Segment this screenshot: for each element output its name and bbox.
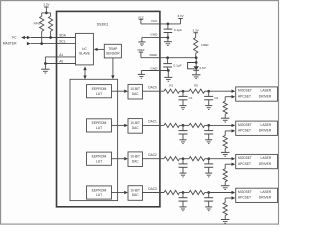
10-BIT DAC block 3 <box>128 186 143 201</box>
10-BIT DAC block 1 <box>128 119 143 134</box>
svg-text:MODSET: MODSET <box>238 123 252 127</box>
EEPROM array box <box>70 79 118 200</box>
wire LUT3 to DAC3 <box>112 192 125 194</box>
wire A0 <box>45 63 76 65</box>
capacitor C2 row 3 <box>208 193 210 198</box>
wire VCC pin <box>141 23 181 25</box>
node GND/cap 1 <box>167 36 170 39</box>
svg-text:2.5V: 2.5V <box>199 66 206 70</box>
resistor APCSET row 2 <box>223 169 227 182</box>
resistor R2 row 3 <box>189 190 205 194</box>
ground APCSET row 0 <box>224 114 226 118</box>
laser driver block 2 <box>236 154 278 168</box>
svg-text:LASER: LASER <box>261 190 272 194</box>
svg-text:A0: A0 <box>59 60 63 64</box>
ground APCSET row 1 <box>224 148 226 152</box>
node R2/C2 row 3 <box>207 191 210 194</box>
wire APCSET row 0 <box>225 96 231 98</box>
wire 100 Ohm to VREF node <box>195 53 197 57</box>
node R1/C1 row 0 <box>182 90 185 93</box>
svg-text:LUT: LUT <box>96 193 102 197</box>
wire temp sensor to I2C slave <box>97 48 104 50</box>
svg-text:3.3V: 3.3V <box>43 3 50 7</box>
svg-text:APCSET: APCSET <box>238 94 251 98</box>
svg-text:LASER: LASER <box>261 123 272 127</box>
svg-text:DAC: DAC <box>132 92 139 96</box>
EEPROM LUT block 0 <box>87 85 112 98</box>
capacitor C2 row 0 <box>208 91 210 96</box>
svg-text:10-BIT: 10-BIT <box>130 121 140 125</box>
capacitor 0.1uF VREF <box>167 58 169 64</box>
wire APCSET row 1 <box>225 130 231 132</box>
wire DAC1 output <box>143 124 165 126</box>
capacitor C1 row 2 <box>182 159 184 164</box>
wire pull-up branch <box>42 12 51 14</box>
svg-text:DAC: DAC <box>132 126 139 130</box>
resistor 100 Ohm <box>194 38 198 54</box>
wire DAC2 output <box>143 158 165 160</box>
svg-text:LASER: LASER <box>261 89 272 93</box>
3.3V supply for pull-ups <box>44 6 48 8</box>
EEPROM LUT block 3 <box>87 186 112 199</box>
wire SDA pull-up <box>50 31 52 37</box>
svg-text:DRIVER: DRIVER <box>259 162 272 166</box>
wire zener cathode <box>195 58 197 63</box>
svg-text:DAC: DAC <box>132 159 139 163</box>
svg-text:TEMP: TEMP <box>108 47 118 51</box>
svg-text:R2: R2 <box>194 84 198 88</box>
ground zener <box>192 74 201 76</box>
capacitor C2 row 2 <box>208 159 210 164</box>
ground C1 row 2 <box>182 167 184 173</box>
wire LUT2 to DAC2 <box>112 158 125 160</box>
svg-text:LASER: LASER <box>261 156 272 160</box>
svg-text:MASTER: MASTER <box>3 41 17 45</box>
svg-text:100Ω: 100Ω <box>201 43 209 47</box>
node R2/C2 row 2 <box>207 157 210 160</box>
svg-text:EEPROM: EEPROM <box>92 121 107 125</box>
node R1/C1 row 3 <box>182 191 185 194</box>
ground C2 row 0 <box>208 100 210 106</box>
resistor R2 row 1 <box>189 123 205 127</box>
ground C2 row 3 <box>208 201 210 207</box>
capacitor C1 row 1 <box>182 125 184 130</box>
svg-text:SLAVE: SLAVE <box>79 51 91 55</box>
svg-text:APCSET: APCSET <box>238 129 251 133</box>
resistor R1 row 2 <box>164 157 180 161</box>
ground C1 row 1 <box>182 134 184 140</box>
svg-text:DRIVER: DRIVER <box>259 196 272 200</box>
svg-text:DS3911: DS3911 <box>97 22 109 26</box>
node SCL pull-up <box>40 42 43 45</box>
ground C2 row 1 <box>208 134 210 140</box>
svg-text:0.1µF: 0.1µF <box>174 28 182 32</box>
ground VCC cap <box>167 38 169 42</box>
svg-text:A1: A1 <box>59 53 63 57</box>
svg-text:VCC: VCC <box>138 15 144 19</box>
node zener ref <box>195 61 198 64</box>
wire GND pin 1 <box>142 37 168 39</box>
svg-text:APCSET: APCSET <box>238 196 251 200</box>
node pull-up top <box>45 12 48 15</box>
svg-text:R1: R1 <box>169 84 173 88</box>
svg-text:GND: GND <box>150 66 158 70</box>
node R1/C1 row 2 <box>182 157 185 160</box>
zener diode 2.5V <box>195 63 197 67</box>
svg-text:DAC: DAC <box>132 193 139 197</box>
capacitor C1 row 3 <box>182 193 184 198</box>
EEPROM LUT block 2 <box>87 152 112 165</box>
node VCC/cap <box>167 23 170 26</box>
wire MODSET row 1 <box>209 124 232 126</box>
svg-text:I²C: I²C <box>12 35 17 39</box>
svg-text:APCSET: APCSET <box>238 162 251 166</box>
resistor R2 row 0 <box>189 89 205 93</box>
svg-text:SENSOR: SENSOR <box>106 51 120 55</box>
wire SDA <box>31 37 76 39</box>
wire A1 <box>45 56 76 58</box>
ground APCSET row 2 <box>224 182 226 186</box>
wire MODSET row 2 <box>209 158 232 160</box>
ground VREF cap <box>167 71 169 78</box>
EEPROM LUT block 1 <box>87 119 112 132</box>
svg-text:C1: C1 <box>189 96 193 100</box>
op-amp I2C SLAVE block <box>76 33 94 65</box>
svg-text:DRIVER: DRIVER <box>259 94 272 98</box>
svg-text:DAC0: DAC0 <box>148 86 157 90</box>
resistor APCSET row 1 <box>223 135 227 148</box>
ground GND pin internal 1 <box>141 38 143 42</box>
svg-text:SCL: SCL <box>59 40 65 44</box>
wire MODSET row 0 <box>209 90 232 92</box>
svg-text:MODSET: MODSET <box>238 190 252 194</box>
svg-text:DAC1: DAC1 <box>148 120 157 124</box>
wire APCSET row 3 <box>225 197 231 199</box>
wire VREF pin <box>141 57 196 59</box>
svg-text:LUT: LUT <box>96 126 102 130</box>
svg-text:GND: GND <box>150 33 158 37</box>
resistor R1 row 3 <box>164 190 180 194</box>
laser driver block 0 <box>236 87 278 101</box>
3.3V supply for VREF resistor <box>194 32 198 34</box>
resistor R2 row 2 <box>189 157 205 161</box>
laser driver block 3 <box>236 188 278 202</box>
wire LUT0 to DAC0 <box>112 90 125 92</box>
temp sensor block <box>104 44 121 58</box>
svg-text:VCC: VCC <box>151 19 158 23</box>
svg-text:DAC2: DAC2 <box>148 153 157 157</box>
op chip DS3911 outline <box>57 11 160 206</box>
node R1/C1 row 1 <box>182 124 185 127</box>
svg-text:SDA: SDA <box>59 34 66 38</box>
resistor R1 row 0 <box>164 89 180 93</box>
svg-text:10-BIT: 10-BIT <box>130 155 140 159</box>
svg-text:10-BIT: 10-BIT <box>130 188 140 192</box>
resistor RPU (SDA pull-up) <box>49 16 53 31</box>
resistor RPU (SCL pull-up) <box>40 16 44 31</box>
svg-text:0.1µF: 0.1µF <box>174 63 182 67</box>
node R2/C2 row 1 <box>207 124 210 127</box>
wire APCSET row 2 <box>225 163 231 165</box>
svg-text:10-BIT: 10-BIT <box>130 87 140 91</box>
svg-text:EEPROM: EEPROM <box>92 155 107 159</box>
svg-text:LUT: LUT <box>96 92 102 96</box>
ground GND pin internal 2 <box>140 71 142 75</box>
svg-text:3.3V: 3.3V <box>193 28 200 32</box>
wire MODSET row 3 <box>209 192 232 194</box>
ground APCSET row 3 <box>224 216 226 220</box>
wire zener ref loop <box>188 63 197 69</box>
wire SCL <box>31 43 76 45</box>
svg-text:LUT: LUT <box>96 159 102 163</box>
wire SCL pull-up <box>41 31 43 43</box>
wire GND pin 2 <box>141 70 168 72</box>
svg-text:MODSET: MODSET <box>238 156 252 160</box>
10-BIT DAC block 2 <box>128 152 143 167</box>
ground C2 row 2 <box>208 167 210 173</box>
capacitor 0.1uF VCC <box>167 24 169 29</box>
node R2/C2 row 0 <box>207 90 210 93</box>
node SDA pull-up <box>49 36 52 39</box>
capacitor C1 row 0 <box>182 91 184 96</box>
ground C1 row 3 <box>182 201 184 207</box>
wire I2C slave to EEPROM bidirectional <box>84 70 86 76</box>
resistor APCSET row 3 <box>223 203 227 216</box>
svg-text:3.3V: 3.3V <box>177 14 184 18</box>
ground A1/A0 <box>44 64 46 70</box>
svg-text:C2: C2 <box>214 96 218 100</box>
10-BIT DAC block 0 <box>128 84 143 99</box>
node VREF/zener top <box>195 56 198 59</box>
3.3V supply VCC <box>180 19 182 24</box>
svg-text:VREF: VREF <box>149 53 157 57</box>
node A1/A0 junction <box>44 62 47 65</box>
SDA bidirectional arrows <box>21 36 25 39</box>
wire DAC3 output <box>143 192 165 194</box>
svg-text:EEPROM: EEPROM <box>92 188 107 192</box>
capacitor C2 row 1 <box>208 125 210 130</box>
wire LUT1 to DAC1 <box>112 124 125 126</box>
ground C1 row 0 <box>182 100 184 106</box>
resistor R1 row 1 <box>164 123 180 127</box>
node VREF/cap <box>166 56 169 59</box>
svg-text:DRIVER: DRIVER <box>259 129 272 133</box>
resistor APCSET row 0 <box>223 101 227 114</box>
svg-text:MODSET: MODSET <box>238 89 252 93</box>
wire temp sensor down to EEPROM <box>112 58 114 76</box>
laser driver block 1 <box>236 121 278 135</box>
svg-text:RPU: RPU <box>34 22 40 26</box>
svg-text:DAC3: DAC3 <box>148 187 157 191</box>
SCL arrow <box>27 42 31 45</box>
node GND/cap 2 <box>167 69 170 72</box>
svg-text:VREF: VREF <box>137 48 145 52</box>
wire DAC0 output <box>143 90 165 92</box>
svg-text:EEPROM: EEPROM <box>92 87 107 91</box>
